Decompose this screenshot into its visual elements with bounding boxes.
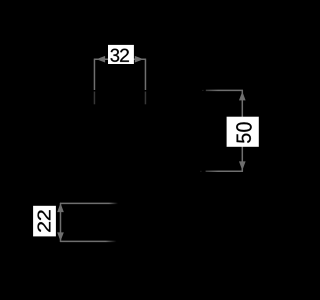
dimension 22: down arrowhead [58, 233, 63, 240]
dimension 50: top extension line [206, 89, 243, 91]
dimension 32: right extension line dim lower part [144, 92, 146, 105]
dimension 50: bottom extension stub [200, 171, 201, 172]
dimension 50: up arrowhead [240, 93, 245, 100]
dimension 22: bottom extension line [60, 240, 117, 242]
dimension 32: dimension line [94, 58, 146, 60]
dimension 32: right extension line bright part [144, 59, 146, 90]
dimension 22: top extension line [60, 202, 118, 204]
dimension 22: dimension line [60, 203, 62, 242]
dimension 32: left extension line bright part [93, 59, 95, 90]
dimension 32: right arrowhead [135, 57, 142, 62]
dimension 22: label text "22" rotated [37, 210, 50, 232]
dimension 32: left extension line dim lower part [93, 92, 95, 105]
dimension 50: label box [227, 117, 259, 147]
dimension 50: top extension stub [202, 90, 203, 91]
dimension 22: up arrowhead [58, 205, 63, 212]
dimension 32: label text "32" [110, 49, 128, 62]
dimension 50: bottom extension line [206, 170, 243, 172]
dimension 50: down arrowhead [240, 162, 245, 169]
dimension 50: label text "50" rotated [236, 122, 252, 142]
dimension 32: label box [108, 45, 134, 64]
dimension 22: label box [33, 206, 56, 237]
dimension 50: dimension line [241, 90, 243, 172]
dimension 32: left arrowhead [98, 57, 105, 62]
